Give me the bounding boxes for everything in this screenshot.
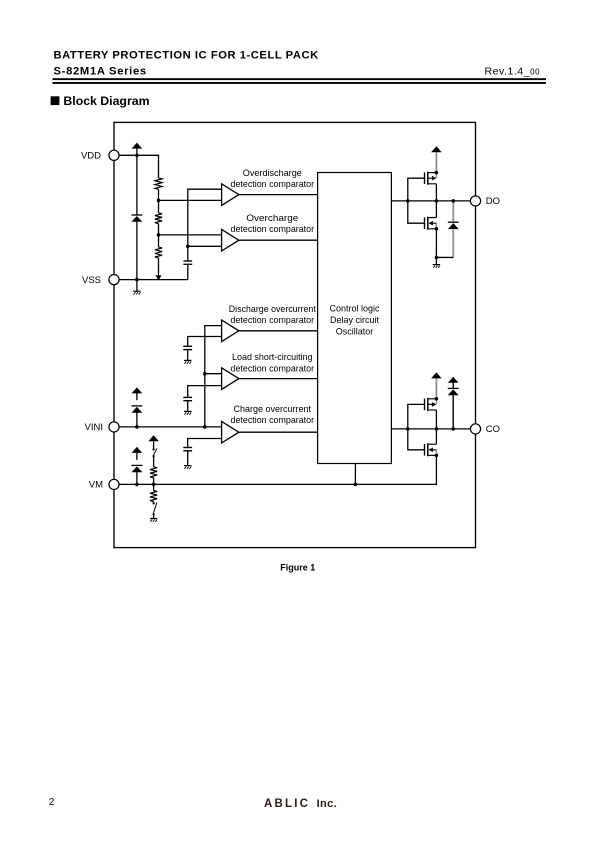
svg-text:VDD: VDD [81,151,101,162]
svg-text:Overcharge: Overcharge [246,213,298,224]
svg-text:DO: DO [486,196,500,207]
svg-text:detection comparator: detection comparator [231,363,315,374]
svg-text:Charge overcurrent: Charge overcurrent [234,404,312,415]
svg-text:Delay circuit: Delay circuit [330,315,380,325]
svg-text:S-82M1A Series: S-82M1A Series [54,65,147,77]
svg-text:detection comparator: detection comparator [231,179,315,190]
svg-text:detection comparator: detection comparator [231,415,315,426]
svg-text:Rev.1.4_00: Rev.1.4_00 [485,66,541,78]
svg-text:CO: CO [486,424,500,435]
svg-text:BATTERY PROTECTION IC FOR 1-CE: BATTERY PROTECTION IC FOR 1-CELL PACK [54,49,319,61]
svg-text:detection comparator: detection comparator [231,224,315,235]
svg-text:Oscillator: Oscillator [336,326,374,336]
svg-text:VM: VM [89,480,103,491]
svg-text:Block Diagram: Block Diagram [63,94,149,108]
svg-text:ABLIC Inc.: ABLIC Inc. [264,798,337,810]
svg-text:VINI: VINI [85,422,103,433]
svg-text:Figure 1: Figure 1 [280,562,315,572]
svg-text:Discharge overcurrent: Discharge overcurrent [229,304,316,315]
svg-text:detection comparator: detection comparator [231,315,315,326]
svg-text:Control logic: Control logic [329,304,380,314]
svg-text:VSS: VSS [82,275,101,286]
svg-text:Overdischarge: Overdischarge [243,168,302,179]
svg-text:2: 2 [49,797,55,808]
svg-text:Load short-circuiting: Load short-circuiting [232,352,313,363]
